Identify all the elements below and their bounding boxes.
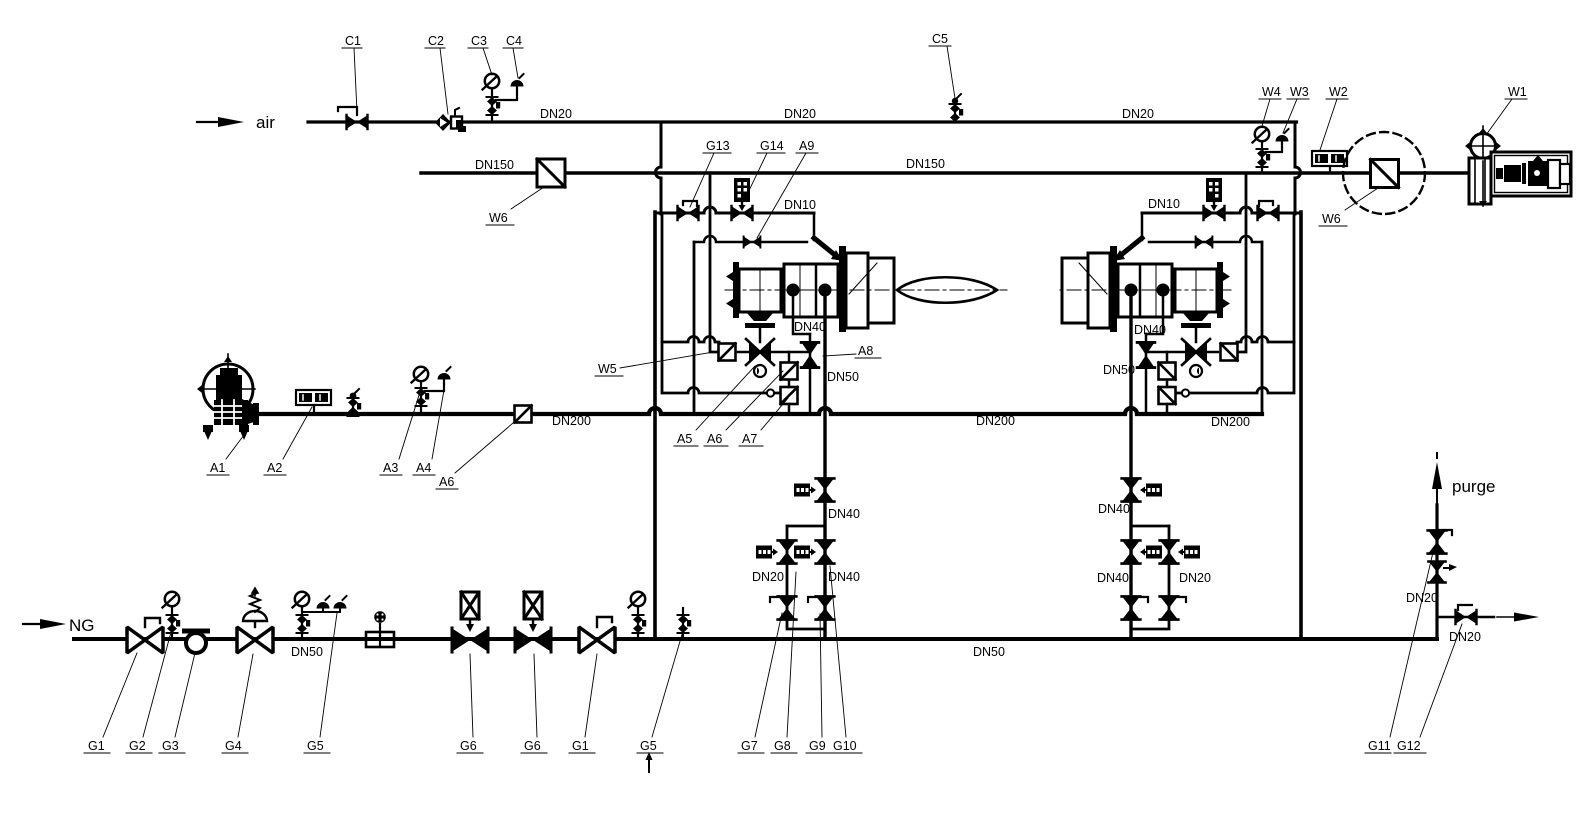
air DN150 main line xyxy=(421,171,1466,174)
gauge C3 xyxy=(483,74,501,122)
strainer G3 xyxy=(182,629,210,654)
svg-text:A9: A9 xyxy=(799,139,814,153)
svg-text:G3: G3 xyxy=(162,739,179,753)
pressure switch A4 xyxy=(425,367,451,391)
burner unit 1 xyxy=(655,122,900,639)
svg-text:W6: W6 xyxy=(489,211,508,225)
svg-text:DN200: DN200 xyxy=(976,414,1015,428)
svg-text:DN50: DN50 xyxy=(291,645,323,659)
gauge A3 xyxy=(412,367,430,414)
svg-text:G13: G13 xyxy=(706,139,730,153)
valve C1 xyxy=(338,107,368,129)
svg-text:G1: G1 xyxy=(88,739,105,753)
dashed detail circle xyxy=(1343,132,1425,214)
gauge G2 xyxy=(163,592,181,639)
svg-text:G9: G9 xyxy=(809,739,826,753)
svg-text:DN20: DN20 xyxy=(540,107,572,121)
svg-text:DN50: DN50 xyxy=(827,370,859,384)
svg-text:G5: G5 xyxy=(640,739,657,753)
svg-text:A8: A8 xyxy=(858,344,873,358)
svg-text:A7: A7 xyxy=(742,432,757,446)
filter W6b xyxy=(1371,160,1399,188)
svg-text:A6: A6 xyxy=(439,475,454,489)
valve G12 xyxy=(1456,605,1477,624)
svg-text:G7: G7 xyxy=(741,739,758,753)
svg-text:G6: G6 xyxy=(460,739,477,753)
svg-text:G11: G11 xyxy=(1368,739,1391,753)
svg-text:G6: G6 xyxy=(524,739,541,753)
svg-text:G4: G4 xyxy=(225,739,242,753)
burner unit 2 (mirrored) xyxy=(1056,122,1301,639)
probe sensor xyxy=(678,608,692,639)
svg-text:C5: C5 xyxy=(932,32,948,46)
air main line DN20 xyxy=(308,120,1297,123)
transmitter A2 xyxy=(296,390,331,414)
flow meter xyxy=(366,611,394,647)
svg-text:DN50: DN50 xyxy=(973,645,1005,659)
svg-text:G1: G1 xyxy=(572,739,589,753)
svg-text:W1: W1 xyxy=(1508,85,1527,99)
svg-text:DN10: DN10 xyxy=(784,198,816,212)
svg-text:DN20: DN20 xyxy=(784,107,816,121)
purge riser DN20 xyxy=(1435,505,1438,639)
filter A6 on duct xyxy=(515,406,532,423)
svg-text:W4: W4 xyxy=(1262,85,1281,99)
gauge G5b xyxy=(629,592,647,639)
shutoff valve G6b xyxy=(515,592,551,652)
flame of burner 1 xyxy=(897,277,1007,303)
svg-text:W2: W2 xyxy=(1329,85,1348,99)
svg-text:DN150: DN150 xyxy=(475,158,514,172)
svg-text:A1: A1 xyxy=(210,461,225,475)
svg-text:C3: C3 xyxy=(471,34,487,48)
svg-text:DN20: DN20 xyxy=(1449,630,1481,644)
svg-text:DN150: DN150 xyxy=(906,157,945,171)
svg-text:G2: G2 xyxy=(129,739,146,753)
label underlines xyxy=(84,46,1527,753)
svg-text:G8: G8 xyxy=(774,739,791,753)
svg-text:DN20: DN20 xyxy=(752,570,784,584)
purge arrow xyxy=(1432,453,1442,505)
combustion air blower A1 xyxy=(197,354,259,440)
svg-text:air: air xyxy=(256,113,275,132)
svg-text:DN40: DN40 xyxy=(828,570,860,584)
shutoff valve G6a xyxy=(452,592,488,652)
leader lines xyxy=(103,46,1512,737)
vent valve G12a xyxy=(1429,562,1457,583)
svg-text:A5: A5 xyxy=(677,432,692,446)
svg-text:DN50: DN50 xyxy=(1103,363,1135,377)
svg-text:DN20: DN20 xyxy=(1122,107,1154,121)
gauge G5 xyxy=(293,592,347,639)
valve C2 xyxy=(435,108,466,132)
svg-text:W3: W3 xyxy=(1290,85,1309,99)
svg-text:W6: W6 xyxy=(1322,212,1341,226)
pressure switch C4 xyxy=(496,74,524,100)
svg-text:NG: NG xyxy=(69,616,95,635)
svg-text:DN20: DN20 xyxy=(1406,591,1438,605)
small arrow under G5b label xyxy=(646,752,653,772)
NG main line DN50 xyxy=(74,637,1437,641)
svg-text:DN40: DN40 xyxy=(1097,571,1129,585)
air inlet flow arrow xyxy=(197,117,244,127)
svg-text:DN200: DN200 xyxy=(552,414,591,428)
svg-text:DN40: DN40 xyxy=(1098,502,1130,516)
svg-text:A6: A6 xyxy=(707,432,722,446)
control valve G4 xyxy=(237,588,273,653)
svg-text:W5: W5 xyxy=(598,362,617,376)
svg-text:G10: G10 xyxy=(833,739,857,753)
outlet flow arrow xyxy=(1497,613,1539,622)
filter W6 xyxy=(537,159,565,187)
gauge W4 xyxy=(1253,127,1271,173)
svg-text:G12: G12 xyxy=(1397,739,1421,753)
svg-text:C4: C4 xyxy=(506,34,522,48)
svg-text:DN40: DN40 xyxy=(1134,323,1166,337)
valve G1 xyxy=(127,618,163,653)
svg-text:A2: A2 xyxy=(267,461,282,475)
probe C5 xyxy=(950,94,964,122)
svg-text:A3: A3 xyxy=(383,461,398,475)
pilot burner W1 xyxy=(1465,126,1571,206)
vent probe on DN200 xyxy=(348,389,362,416)
valve G11 xyxy=(1428,530,1452,554)
NG inlet flow arrow xyxy=(23,619,66,629)
air duct main line DN200 xyxy=(257,408,1262,414)
valve G1b xyxy=(579,617,615,653)
svg-text:DN200: DN200 xyxy=(1211,415,1250,429)
svg-text:G14: G14 xyxy=(760,139,784,153)
transmitter W2 xyxy=(1312,151,1347,173)
svg-text:purge: purge xyxy=(1452,477,1495,496)
svg-text:G5: G5 xyxy=(307,739,324,753)
svg-text:A4: A4 xyxy=(416,461,431,475)
svg-text:DN10: DN10 xyxy=(1148,197,1180,211)
pressure switch W3 xyxy=(1266,129,1289,152)
svg-text:C2: C2 xyxy=(428,34,444,48)
svg-text:DN40: DN40 xyxy=(794,320,826,334)
svg-text:C1: C1 xyxy=(345,34,361,48)
purge branch line xyxy=(1437,616,1494,619)
svg-text:DN20: DN20 xyxy=(1179,571,1211,585)
svg-text:DN40: DN40 xyxy=(828,507,860,521)
